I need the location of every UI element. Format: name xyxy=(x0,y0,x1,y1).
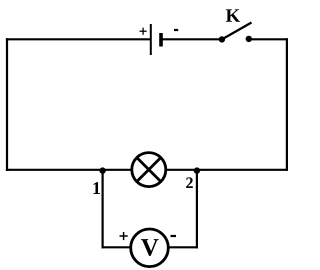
wire: top side, battery to switch xyxy=(163,38,223,40)
label: battery - sign xyxy=(174,29,178,31)
wire: voltmeter branch right horizontal xyxy=(168,246,198,248)
wire: right side of main loop xyxy=(286,38,288,171)
wire: node 2 down to voltmeter branch xyxy=(196,171,198,249)
switch K: left contact dot xyxy=(219,36,225,42)
voltmeter V xyxy=(131,229,169,267)
label K xyxy=(226,9,240,21)
label: battery + sign xyxy=(140,28,147,35)
wire: left side of main loop xyxy=(6,38,8,171)
wire: node 1 down to voltmeter branch xyxy=(101,171,103,249)
node 1 junction dot xyxy=(99,167,105,173)
label: voltmeter - sign xyxy=(171,235,177,237)
battery short plate (-) xyxy=(159,33,163,47)
wire: top side, switch to right corner xyxy=(249,38,288,40)
battery long plate (+) xyxy=(150,24,152,55)
node 2 junction dot xyxy=(194,167,200,173)
switch K: right contact dot xyxy=(246,36,252,42)
label: voltmeter + sign xyxy=(120,232,128,240)
wire: bottom side, left corner to lamp xyxy=(6,169,131,171)
wire: top side, left segment to battery xyxy=(6,38,151,40)
lamp L (circle with X) xyxy=(132,153,166,187)
switch K: lever xyxy=(222,23,252,40)
label 2 xyxy=(186,177,193,188)
label 1 xyxy=(93,182,100,194)
wire: voltmeter branch left horizontal xyxy=(102,246,132,248)
wire: bottom side, lamp to right corner xyxy=(167,169,289,171)
